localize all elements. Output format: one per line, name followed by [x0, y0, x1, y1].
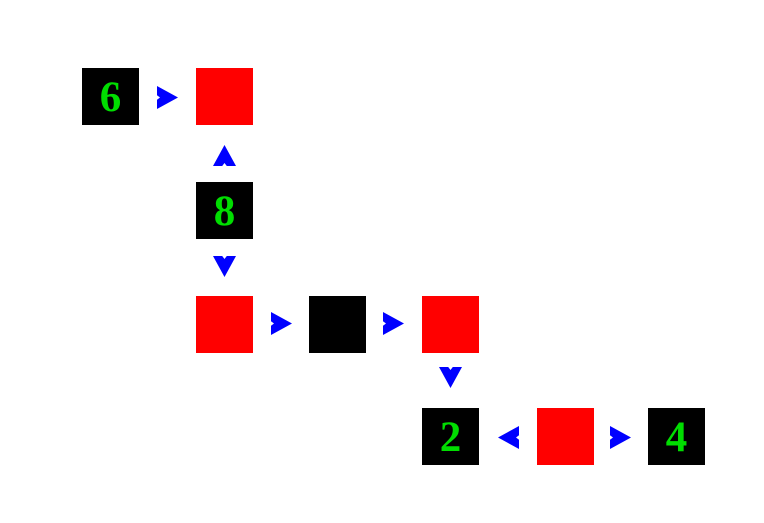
node black empty	[309, 296, 366, 353]
node red C	[422, 296, 479, 353]
wire arrow left: red D -> 2	[498, 426, 519, 449]
wire arrow down: red C -> 2	[439, 367, 462, 388]
wire arrow right: black empty -> red C	[383, 312, 404, 335]
wire arrow down: 8 -> red B	[213, 256, 236, 277]
wire arrow right: red D -> 4	[610, 426, 631, 449]
label 4	[648, 408, 705, 467]
node 6 (black square, green label)	[82, 68, 139, 125]
node 8 (black square, green label)	[196, 182, 253, 239]
wire arrow up: 8 -> red A	[213, 145, 236, 166]
label 6	[82, 68, 139, 127]
label 2	[422, 408, 479, 467]
label 8	[196, 182, 253, 241]
node red D	[537, 408, 594, 465]
node 2 (black square, green label)	[422, 408, 479, 465]
wire arrow right: red B -> black empty	[271, 312, 292, 335]
node red A	[196, 68, 253, 125]
wire arrow right: 6 -> red A	[157, 86, 178, 109]
node 4 (black square, green label)	[648, 408, 705, 465]
node red B	[196, 296, 253, 353]
